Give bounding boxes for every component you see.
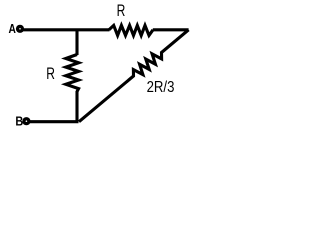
svg-text:2R/3: 2R/3 [147,79,175,96]
svg-text:A: A [9,21,17,36]
svg-text:R: R [117,2,126,20]
svg-text:R: R [46,65,55,83]
svg-text:B: B [15,113,23,128]
